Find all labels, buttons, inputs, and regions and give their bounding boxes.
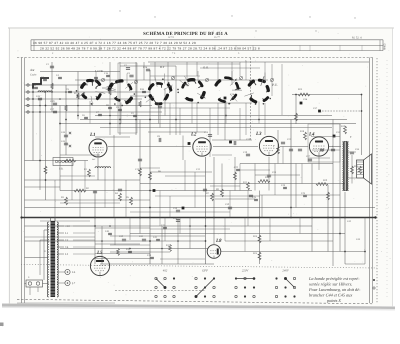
svg-text:Ant: Ant xyxy=(29,68,35,72)
svg-text:C4N: C4N xyxy=(50,100,55,103)
svg-text:L8: L8 xyxy=(215,238,222,244)
svg-text:16 77: 16 77 xyxy=(214,36,221,39)
svg-text:L1: L1 xyxy=(89,132,96,138)
svg-text:L.U.W.: L.U.W. xyxy=(94,69,104,73)
svg-text:P.U.: P.U. xyxy=(271,83,278,87)
svg-text:36 98 57 87 47 42 43 40 47 4 2: 36 98 57 87 47 42 43 40 47 4 25 2F 4 72 … xyxy=(33,41,196,45)
svg-text:M. 52. 4: M. 52. 4 xyxy=(352,37,362,40)
svg-text:G: G xyxy=(245,60,247,63)
svg-text:L3: L3 xyxy=(255,131,262,137)
svg-text:B.T: B.T xyxy=(160,65,165,69)
svg-text:A 7²2: A 7²2 xyxy=(168,36,174,39)
svg-text:GPP: GPP xyxy=(202,269,208,273)
svg-text:T: T xyxy=(350,136,352,139)
svg-text:Pour Luxembourg, on doit dé-: Pour Luxembourg, on doit dé- xyxy=(308,287,361,292)
svg-text:La bande préréglée est repré-: La bande préréglée est repré- xyxy=(308,276,360,281)
svg-text:brancher C44 et C45 aux: brancher C44 et C45 aux xyxy=(309,293,352,298)
svg-text:402: 402 xyxy=(163,269,168,273)
svg-text:M403: M403 xyxy=(384,43,387,50)
svg-text:28 32 52 92 36 98 48 28 78 7: 28 32 52 92 36 98 48 28 78 7 8 98 38 7 2… xyxy=(40,46,260,50)
svg-text:sentée réglée sur Hilvers.: sentée réglée sur Hilvers. xyxy=(309,282,352,287)
svg-text:+L3: +L3 xyxy=(65,225,70,228)
svg-text:O.O.: O.O. xyxy=(203,66,209,70)
svg-text:L6: L6 xyxy=(72,270,76,274)
svg-text:P.B.: P.B. xyxy=(59,168,64,171)
svg-text:Cadre: Cadre xyxy=(30,74,37,77)
svg-text:L2: L2 xyxy=(190,132,197,138)
svg-text:points X: points X xyxy=(326,298,341,303)
